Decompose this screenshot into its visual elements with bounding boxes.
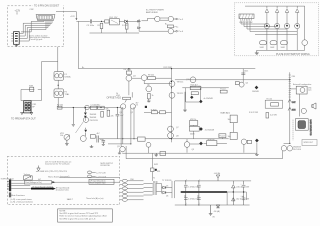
- svg-text:with 100K 50% (TP1+TP2) TP3+TP: with 100K 50% (TP1+TP2) TP3+TP4: [36, 170, 67, 173]
- svg-text:SW2: SW2: [154, 164, 158, 166]
- svg-text:main amplifier input: main amplifier input: [90, 182, 106, 185]
- svg-text:(Insulation hole): (Insulation hole): [56, 188, 69, 191]
- svg-text:R8 100R: R8 100R: [124, 69, 132, 71]
- svg-text:TO/FROM JACK: TO/FROM JACK: [1, 178, 15, 181]
- svg-text:VR2 1k: VR2 1k: [190, 119, 196, 121]
- svg-text:Jack: Jack: [308, 90, 312, 92]
- svg-text:10k: 10k: [60, 135, 63, 137]
- svg-text:D5: D5: [166, 185, 168, 187]
- svg-text:TIP41C: TIP41C: [177, 81, 184, 83]
- svg-text:+12V: +12V: [70, 16, 75, 18]
- svg-text:Q7: Q7: [176, 127, 179, 129]
- svg-text:CN4: CN4: [292, 76, 296, 78]
- svg-text:Volume: Volume: [24, 174, 30, 176]
- svg-text:TO PREAMP/STA OUT: TO PREAMP/STA OUT: [11, 117, 36, 120]
- svg-text:+: +: [199, 179, 200, 181]
- svg-text:CN3 FOOTSW: CN3 FOOTSW: [239, 22, 252, 24]
- svg-text:1N4148: 1N4148: [90, 114, 97, 116]
- svg-text:External Loudspeaker: External Loudspeaker: [293, 83, 312, 86]
- svg-text:Q10: Q10: [186, 79, 190, 81]
- svg-text:4k7: 4k7: [38, 179, 41, 181]
- svg-text:4x 1N4148: 4x 1N4148: [204, 98, 213, 100]
- svg-text:500R: 500R: [190, 134, 195, 136]
- svg-text:FROM PSU: FROM PSU: [101, 165, 111, 167]
- svg-text:R12 220R: R12 220R: [164, 67, 173, 69]
- svg-text:RL1 12V: RL1 12V: [110, 17, 118, 19]
- svg-text:47k: 47k: [106, 109, 109, 111]
- svg-text:Fused: Fused: [220, 136, 225, 138]
- svg-text:LP Input (Sound) shielded: LP Input (Sound) shielded: [32, 185, 53, 188]
- svg-text:2SC5200: 2SC5200: [293, 149, 301, 151]
- svg-text:C 100n/63v: C 100n/63v: [91, 104, 101, 106]
- svg-text:SAVE T: SAVE T: [67, 198, 74, 201]
- svg-text:1-10UF/63V: 1-10UF/63V: [191, 86, 202, 88]
- svg-text:100R: 100R: [281, 47, 286, 49]
- svg-text:+: +: [241, 196, 242, 198]
- svg-text:C 4700u 63V: C 4700u 63V: [188, 198, 200, 200]
- svg-text:Mute Functions: Mute Functions: [11, 194, 25, 197]
- svg-text:+: +: [186, 179, 187, 181]
- svg-text:PLATE FOOTSWITCH WIRING: PLATE FOOTSWITCH WIRING: [276, 53, 310, 56]
- svg-text:6X32A: 6X32A: [65, 75, 72, 78]
- svg-text:C 4700u 63V: C 4700u 63V: [188, 186, 200, 188]
- svg-text:1k: 1k: [152, 95, 154, 97]
- svg-text:Post (Voltage to Pin): Post (Voltage to Pin): [25, 181, 42, 184]
- svg-text:Fused: Fused: [220, 89, 225, 91]
- svg-text:-56 (A): -56 (A): [214, 210, 220, 213]
- svg-text:4x 1N4148: 4x 1N4148: [205, 129, 214, 131]
- svg-text:TO 8 PIN DIN SOCKET: TO 8 PIN DIN SOCKET: [34, 5, 60, 8]
- svg-text:OUT: OUT: [292, 102, 296, 104]
- svg-text:CN6: CN6: [130, 179, 134, 181]
- svg-text:Q1: Q1: [120, 112, 123, 114]
- svg-text:R 0.22 5W: R 0.22 5W: [249, 112, 258, 114]
- svg-text:T1 TOROID: T1 TOROID: [162, 180, 172, 182]
- svg-text:22k: 22k: [111, 116, 114, 118]
- svg-text:1N4148: 1N4148: [252, 91, 259, 93]
- svg-text:AMPLIFIER: AMPLIFIER: [146, 11, 158, 14]
- svg-text:Mono Switch: Mono Switch: [48, 175, 59, 178]
- svg-text:FS1: FS1: [157, 171, 160, 173]
- svg-text:Set VR2 to give 0V across CN1: Set VR2 to give 0V across CN1 pin 1-8: [59, 217, 96, 220]
- svg-text:Q4: Q4: [133, 76, 136, 78]
- svg-text:Q8: Q8: [176, 136, 179, 138]
- svg-text:+12V: +12V: [15, 10, 21, 13]
- svg-text:C9 100n: C9 100n: [87, 25, 95, 27]
- svg-text:+: +: [186, 203, 187, 205]
- svg-text:+56v dc: +56v dc: [236, 186, 243, 188]
- svg-text:10u: 10u: [228, 119, 231, 121]
- svg-text:4u7: 4u7: [120, 115, 123, 117]
- svg-text:D6: D6: [166, 195, 168, 197]
- svg-text:4k7: 4k7: [97, 133, 100, 135]
- svg-text:100R: 100R: [260, 47, 265, 49]
- svg-text:These la-la (A) or (xx): These la-la (A) or (xx): [86, 197, 104, 200]
- svg-text:Q2: Q2: [131, 112, 134, 114]
- svg-text:+: +: [241, 183, 242, 185]
- svg-text:MJE340: MJE340: [208, 139, 215, 141]
- svg-text:MAIN DRIVER PCB: MAIN DRIVER PCB: [309, 120, 312, 137]
- svg-text:VR4: VR4: [116, 95, 120, 97]
- svg-text:mounted on the TO CLIK pcb: mounted on the TO CLIK pcb: [45, 162, 70, 165]
- svg-text:(+) TO CLIK: (+) TO CLIK: [97, 176, 107, 178]
- svg-text:Cut-off (p) pcb: Cut-off (p) pcb: [30, 38, 44, 41]
- svg-text:2SC1815: 2SC1815: [90, 120, 99, 122]
- svg-text:D1 R2: D1 R2: [122, 25, 129, 27]
- svg-text:100R: 100R: [270, 47, 275, 49]
- svg-text:R9 2k2: R9 2k2: [148, 75, 154, 77]
- svg-text:10u: 10u: [228, 136, 231, 138]
- svg-text:Refer to service manual before: Refer to service manual before adjusting…: [59, 214, 107, 217]
- svg-text:(L+R) = front panel phones: (L+R) = front panel phones: [10, 200, 33, 203]
- svg-text:Q3: Q3: [117, 146, 120, 148]
- svg-text:Q6: Q6: [147, 85, 150, 87]
- svg-text:(rear panel): (rear panel): [60, 176, 70, 178]
- svg-text:R 0.22: R 0.22: [267, 99, 273, 101]
- svg-text:1%: 1%: [136, 105, 139, 107]
- svg-text:+: +: [199, 203, 200, 205]
- svg-text:+56 (A): +56 (A): [214, 172, 221, 175]
- svg-text:1k R20: 1k R20: [151, 109, 157, 111]
- svg-text:-56v dc: -56v dc: [236, 199, 242, 201]
- svg-text:BIAS ADJ: BIAS ADJ: [221, 111, 231, 114]
- svg-text:Q9: Q9: [192, 149, 195, 151]
- svg-text:0.22 5W: 0.22 5W: [270, 114, 277, 116]
- svg-text:SPKR OUT: SPKR OUT: [304, 142, 315, 144]
- svg-text:10u: 10u: [100, 139, 103, 141]
- svg-text:100n: 100n: [244, 71, 248, 73]
- svg-text:R2 10k: R2 10k: [57, 104, 63, 106]
- svg-text:TIP42C: TIP42C: [177, 93, 184, 95]
- svg-text:(-) TO CLIK: (-) TO CLIK: [97, 172, 107, 174]
- svg-text:1N4148: 1N4148: [90, 117, 97, 119]
- svg-text:Q5: Q5: [246, 83, 249, 85]
